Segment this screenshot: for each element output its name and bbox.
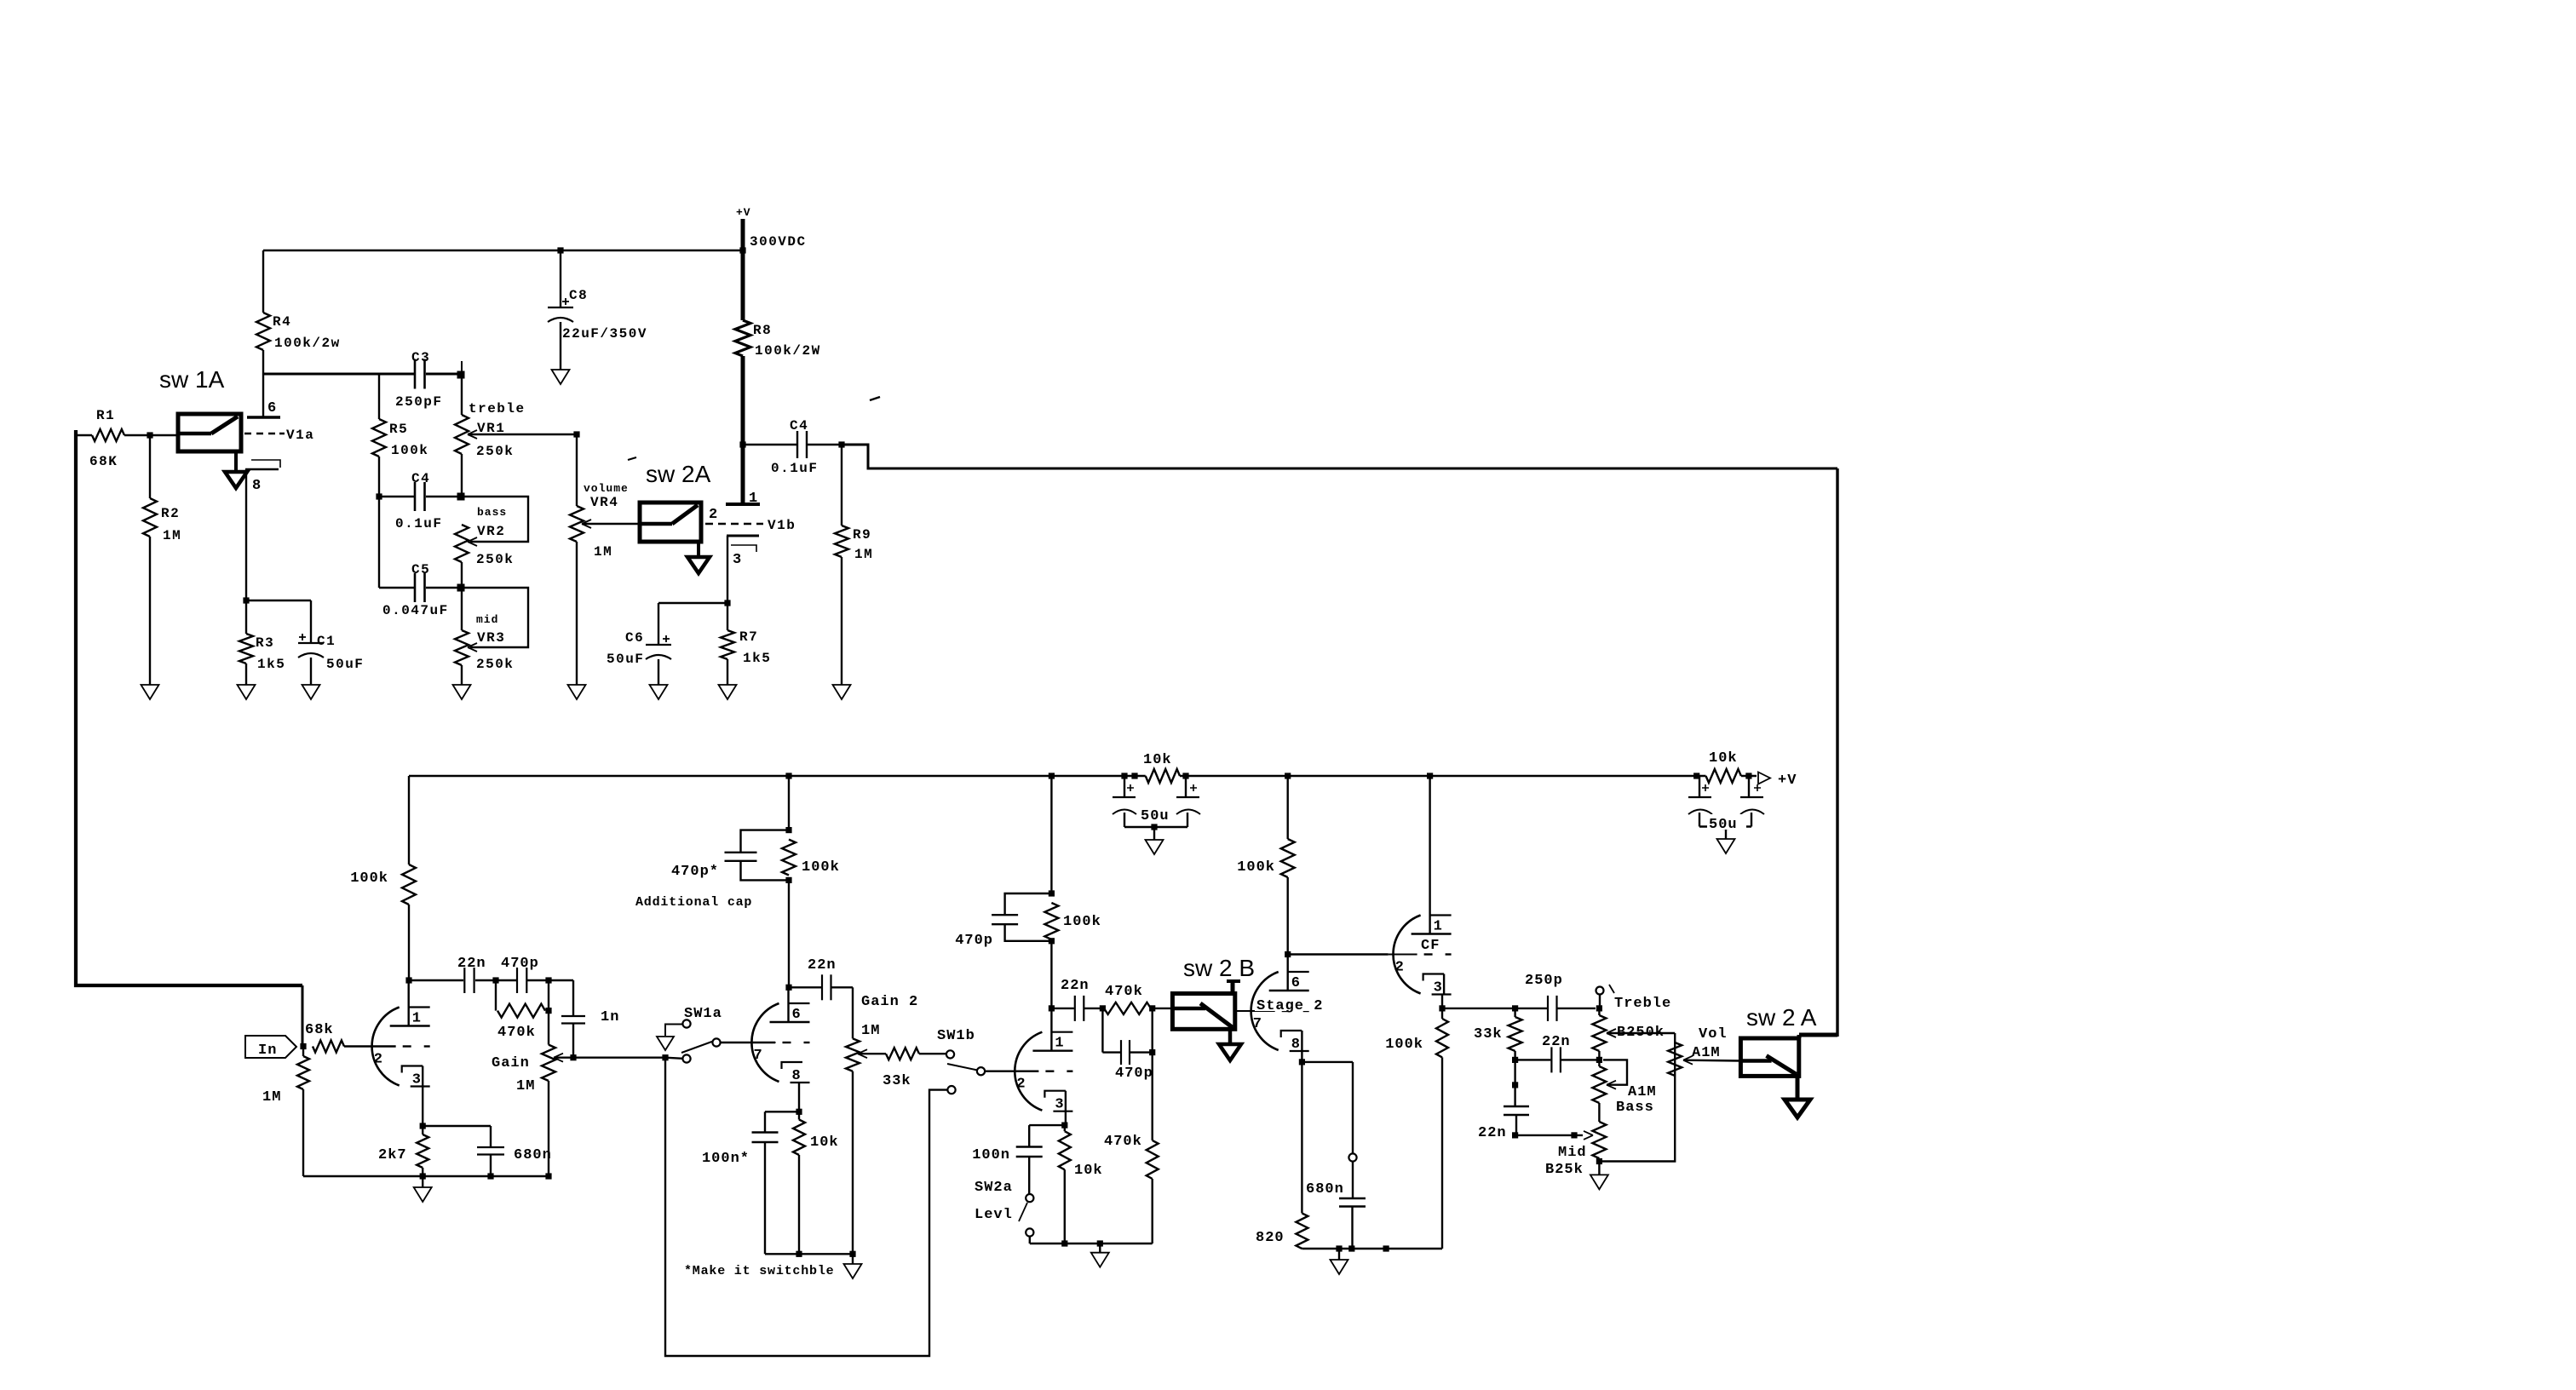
svg-text:R3: R3 [256, 635, 274, 651]
svg-text:3: 3 [1055, 1097, 1063, 1113]
node taps on rail [785, 773, 791, 778]
capacitor 22n stage2 out [789, 986, 821, 988]
wire 470p*/100k branch [788, 776, 790, 830]
svg-text:22n: 22n [808, 957, 837, 974]
wire to CF grid [1288, 953, 1389, 955]
svg-text:470p: 470p [501, 956, 539, 972]
svg-text:7: 7 [1253, 1016, 1262, 1032]
resistor R2 1M [149, 435, 151, 498]
wire V1a cathode lead [245, 469, 247, 600]
wire bass wiper loop [1607, 1081, 1616, 1089]
ground under R2 [141, 685, 159, 699]
tube V1 stage1 [372, 1008, 400, 1086]
svg-text:Levl: Levl [975, 1207, 1013, 1223]
capacitor C1 50uF [310, 600, 312, 643]
resistor R4 100k/2w [262, 250, 264, 313]
svg-text:3: 3 [412, 1072, 421, 1088]
potentiometer VR3 mid 250k [455, 630, 469, 665]
capacitor 470p* additional [741, 830, 790, 853]
wire Gain wiper to SW1a [554, 1056, 665, 1058]
svg-text:volume: volume [584, 482, 629, 495]
wire thick input feed to bottom section [76, 430, 302, 985]
wire B+ bus thick [741, 219, 745, 320]
svg-text:R1: R1 [96, 408, 115, 423]
svg-text:33k: 33k [883, 1073, 911, 1089]
svg-text:sw 2 A: sw 2 A [1746, 1004, 1817, 1031]
tube V1a (partial, plate and cathode) [262, 374, 264, 417]
resistor R9 1M [841, 445, 842, 526]
resistor 10k cathode stage3 [1064, 1125, 1066, 1131]
svg-text:Gain: Gain [492, 1055, 530, 1071]
resistor 100k CF cathode [1436, 1019, 1448, 1057]
wire vol wiper to sw 2 A [1683, 1056, 1693, 1065]
svg-text:C6: C6 [625, 630, 644, 646]
svg-text:treble: treble [469, 401, 526, 416]
svg-text:bass: bass [477, 506, 507, 519]
capacitor 22n stage3 out [1051, 1008, 1073, 1009]
svg-text:R5: R5 [389, 422, 408, 437]
svg-text:1n: 1n [601, 1009, 619, 1025]
capacitor 22n tone top [1515, 1059, 1551, 1060]
svg-text:33k: 33k [1474, 1026, 1503, 1042]
capacitor 470p plate stage3 [1005, 893, 1052, 915]
svg-text:2: 2 [1016, 1077, 1025, 1093]
svg-text:22n: 22n [1542, 1034, 1571, 1050]
svg-text:mid: mid [476, 613, 498, 626]
svg-text:10k: 10k [1143, 752, 1172, 768]
ground under R7 [719, 685, 737, 699]
svg-text:22n: 22n [457, 956, 486, 972]
wire 50u pair common [1124, 826, 1187, 828]
svg-text:R2: R2 [161, 506, 180, 521]
resistor 1M input [302, 1047, 304, 1057]
resistor R5 100k [378, 374, 380, 419]
svg-text:C8: C8 [569, 288, 588, 303]
tube V5 CF [1393, 916, 1420, 994]
svg-text:1k5: 1k5 [257, 657, 285, 672]
wire cathode stage2 [798, 1083, 800, 1111]
svg-text:R4: R4 [273, 314, 291, 330]
svg-text:470k: 470k [1105, 984, 1143, 1000]
svg-text:Bass: Bass [1616, 1100, 1654, 1116]
svg-text:+V: +V [736, 206, 751, 219]
svg-text:C4: C4 [411, 471, 430, 486]
ground under C6 [650, 685, 668, 699]
svg-text:1: 1 [1055, 1036, 1063, 1052]
svg-text:C4: C4 [790, 418, 808, 434]
svg-text:2: 2 [1395, 960, 1404, 976]
resistor 68k grid stopper [300, 1043, 306, 1049]
svg-text:100n: 100n [972, 1147, 1010, 1163]
svg-text:8: 8 [252, 478, 261, 494]
capacitor 100n* cathode [752, 1131, 779, 1133]
power arrow +V [1758, 773, 1770, 784]
svg-text:10k: 10k [810, 1134, 839, 1151]
svg-text:1M: 1M [262, 1089, 281, 1106]
svg-text:Stage 2: Stage 2 [1256, 998, 1323, 1014]
svg-text:Vol: Vol [1699, 1026, 1728, 1042]
svg-text:C5: C5 [411, 562, 430, 577]
svg-text:680n: 680n [1306, 1181, 1344, 1198]
wire plate node stage3 [1050, 941, 1052, 1051]
svg-text:1M: 1M [163, 528, 181, 543]
svg-text:+V: +V [1778, 773, 1797, 789]
ground under sw 2 A [1796, 1076, 1800, 1100]
svg-text:SW1b: SW1b [937, 1028, 975, 1044]
wire to sw 2 B [1153, 1008, 1173, 1009]
svg-text:A1M: A1M [1692, 1045, 1721, 1061]
svg-text:6: 6 [1291, 975, 1300, 991]
svg-text:470p: 470p [955, 933, 993, 949]
svg-text:470k: 470k [1104, 1134, 1142, 1150]
wire treble wiper to Vol [1607, 1029, 1616, 1037]
potentiometer VR4 volume 1M [576, 434, 578, 506]
resistor 10k cathode stage2 [798, 1111, 800, 1119]
svg-text:VR3: VR3 [477, 630, 505, 646]
svg-text:sw 1A: sw 1A [159, 366, 225, 393]
wire cathode stage3 [1065, 1091, 1067, 1125]
svg-text:50u: 50u [1141, 808, 1170, 824]
svg-text:470k: 470k [497, 1025, 536, 1041]
svg-text:1k5: 1k5 [743, 651, 771, 666]
svg-text:1M: 1M [861, 1023, 880, 1039]
ground 820/680n [1338, 1249, 1340, 1260]
wire SW1a to V2 grid [721, 1042, 776, 1043]
capacitor 50u left B [1185, 776, 1187, 797]
resistor 10k supply right [1706, 769, 1741, 783]
capacitor 50u right B [1748, 776, 1750, 797]
potentiometer VR1 treble 250k [461, 375, 463, 415]
node junction C8 tap [557, 247, 563, 253]
potentiometer VR2 bass 250k [455, 525, 469, 562]
ground under 50u right [1717, 839, 1735, 853]
svg-text:50uF: 50uF [326, 657, 364, 672]
svg-text:1M: 1M [854, 547, 873, 562]
svg-text:*Make it switchble: *Make it switchble [684, 1264, 834, 1278]
svg-text:Additional cap: Additional cap [635, 895, 752, 910]
capacitor 1n [549, 979, 573, 981]
wire stage2tube cathode [1301, 1031, 1302, 1062]
svg-text:A1M: A1M [1628, 1084, 1657, 1100]
svg-text:68K: 68K [89, 454, 118, 469]
resistor 820 [1301, 1062, 1302, 1214]
svg-text:1: 1 [749, 491, 757, 507]
resistor R8 100k/2W [735, 320, 750, 356]
ground under R9 [833, 685, 851, 699]
wire plate lead stage1 [408, 980, 410, 1026]
resistor 100k plate stage1 [408, 776, 410, 864]
svg-text:0.047uF: 0.047uF [382, 603, 449, 618]
ground tone stack [1598, 1162, 1600, 1175]
tube V4 Stage 2 [1251, 972, 1279, 1050]
resistor 100k plate [1286, 776, 1288, 839]
ground under C1 [302, 685, 320, 699]
svg-text:1M: 1M [594, 544, 612, 560]
resistor 100k plate stage2 [782, 840, 796, 876]
resistor 10k supply left [1146, 769, 1180, 783]
resistor 470k series [1104, 1002, 1151, 1014]
capacitor C4 0.1uF [379, 496, 414, 498]
svg-text:6: 6 [267, 400, 276, 416]
svg-text:SW1a: SW1a [684, 1006, 722, 1022]
wire cathode rail stage2 [765, 1253, 853, 1255]
capacitor C6 50uF [658, 603, 659, 645]
svg-text:250k: 250k [476, 552, 514, 567]
svg-text:7: 7 [754, 1048, 762, 1064]
wire mid wiper [1512, 1132, 1518, 1138]
resistor R1 68K [76, 434, 92, 436]
svg-text:300VDC: 300VDC [750, 234, 807, 250]
svg-text:100k/2W: 100k/2W [755, 343, 821, 359]
potentiometer Treble B250k [1599, 995, 1601, 1008]
wire VR4 wiper to sw 2A [582, 523, 640, 525]
svg-text:sw 2 B: sw 2 B [1183, 955, 1255, 981]
svg-text:100n*: 100n* [702, 1151, 750, 1167]
ground under sw 1A [234, 451, 238, 472]
svg-text:10k: 10k [1709, 750, 1738, 767]
ground under 50u left [1146, 840, 1164, 854]
svg-text:68k: 68k [305, 1022, 334, 1038]
stray scan mark 1 [870, 397, 880, 400]
svg-text:R9: R9 [853, 527, 871, 543]
svg-text:3: 3 [1434, 980, 1442, 997]
wire top rail to B+ [263, 250, 743, 251]
wire mid wiper loop [462, 588, 528, 647]
capacitor 50u right A [1699, 776, 1700, 797]
wire CF plate lead [1429, 776, 1430, 934]
svg-text:sw 2A: sw 2A [646, 461, 711, 487]
wire plate lead stage2tube [1286, 955, 1288, 991]
ground under VR4 [568, 685, 586, 699]
resistor R7 1k5 [727, 603, 728, 630]
svg-text:820: 820 [1256, 1230, 1285, 1246]
potentiometer Bass A1M [1592, 1066, 1606, 1103]
potentiometer Gain2 1M [852, 987, 854, 1038]
svg-text:10k: 10k [1074, 1163, 1103, 1179]
wire right bus down to sw 2 A [1836, 468, 1838, 1037]
capacitor 470p bright [496, 979, 516, 981]
ground stage1 [422, 1176, 423, 1187]
potentiometer Gain 1M [548, 1011, 549, 1045]
svg-text:100k: 100k [350, 870, 388, 887]
capacitor C5 0.047uF [379, 587, 414, 589]
svg-text:Treble: Treble [1614, 996, 1671, 1012]
ground stage3 cathode [1099, 1244, 1101, 1253]
resistor 2k7 [422, 1126, 423, 1134]
wire thick bus corner into sw 2 A [1799, 1033, 1837, 1037]
svg-text:2: 2 [709, 507, 717, 523]
stray scan mark 2 [628, 457, 636, 460]
potentiometer Vol A1M [1668, 1042, 1682, 1076]
capacitor C8 22uF/350V [560, 250, 561, 307]
wire ground rail stage1 [303, 1175, 549, 1177]
svg-text:1: 1 [1434, 919, 1442, 935]
capacitor 22n tone bottom [1514, 1060, 1515, 1085]
svg-text:VR4: VR4 [590, 495, 618, 510]
resistor 470k mix [495, 980, 497, 1011]
capacitor 680n stage2tube [1348, 1153, 1356, 1161]
ground under VR3 [453, 685, 471, 699]
wire 50u right common [1699, 825, 1751, 827]
node C3/VR1 junction [457, 371, 465, 379]
wire tone stack right rail [1599, 1033, 1675, 1162]
svg-text:250pF: 250pF [395, 394, 443, 410]
svg-text:100k: 100k [391, 443, 428, 458]
capacitor 22n stage1 out [409, 979, 463, 981]
tube V1b (partial) [726, 503, 760, 506]
capacitor 250p [1442, 1008, 1547, 1009]
svg-text:0.1uF: 0.1uF [395, 516, 443, 531]
resistor 33k series [858, 1053, 886, 1054]
svg-text:In: In [258, 1042, 277, 1059]
svg-text:SW2a: SW2a [975, 1180, 1013, 1196]
svg-text:22n: 22n [1061, 978, 1090, 994]
svg-text:250k: 250k [476, 444, 514, 459]
wire CF cathode [1443, 974, 1445, 996]
tube V3 stage3 [1015, 1032, 1042, 1111]
svg-text:R7: R7 [739, 629, 758, 645]
wire cathode stage1 [422, 1066, 423, 1127]
capacitor C4 0.1uF coupling out [743, 444, 796, 445]
svg-text:0.1uF: 0.1uF [771, 461, 819, 476]
capacitor 470p parallel [1101, 1008, 1103, 1053]
svg-text:8: 8 [792, 1068, 801, 1084]
svg-text:50u: 50u [1709, 817, 1738, 833]
svg-text:Gain 2: Gain 2 [861, 994, 918, 1010]
ground under sw 2 B [1228, 1029, 1233, 1044]
wire cathode rail [1302, 1248, 1442, 1249]
wire V1b cathode lead [727, 536, 728, 603]
svg-text:680n: 680n [514, 1147, 552, 1163]
svg-text:VR2: VR2 [477, 524, 505, 539]
wire SW1a bottom return [665, 1058, 947, 1356]
capacitor 100n [1016, 1146, 1043, 1147]
svg-text:22uF/350V: 22uF/350V [562, 326, 647, 342]
svg-text:V1b: V1b [768, 518, 796, 533]
capacitor C3 250pF [414, 359, 417, 389]
svg-text:6: 6 [792, 1007, 801, 1023]
svg-text:100k: 100k [1385, 1037, 1423, 1053]
wire plate rail V1a [263, 373, 414, 376]
wire cathode rail stage3 [1030, 1243, 1153, 1244]
svg-text:250k: 250k [476, 657, 514, 672]
potentiometer Mid B25k [1592, 1122, 1606, 1158]
wire top output run to right bus [842, 445, 1837, 468]
wire B+ rail bottom section [409, 775, 1146, 777]
svg-text:22n: 22n [1478, 1125, 1507, 1141]
svg-text:250p: 250p [1525, 973, 1563, 989]
svg-text:CF: CF [1421, 938, 1440, 954]
svg-text:470p: 470p [1115, 1065, 1153, 1082]
svg-text:100k/2w: 100k/2w [274, 336, 341, 351]
ground stage2 cathode [852, 1254, 854, 1264]
svg-text:8: 8 [1291, 1037, 1300, 1053]
svg-text:C1: C1 [317, 634, 336, 649]
svg-text:V1a: V1a [286, 428, 314, 443]
svg-text:100k: 100k [1063, 914, 1101, 930]
ground under C8 [552, 370, 570, 384]
resistor 100k plate stage3 [1050, 776, 1052, 893]
svg-text:100k: 100k [802, 859, 840, 876]
wire plate node stage2 [788, 880, 790, 987]
wire SW1b to V3 grid [985, 1070, 1038, 1071]
svg-text:1M: 1M [516, 1078, 535, 1094]
resistor 470k grid leak [1151, 1008, 1153, 1140]
svg-text:1: 1 [412, 1011, 421, 1027]
svg-text:470p*: 470p* [671, 864, 719, 880]
svg-text:2k7: 2k7 [378, 1147, 407, 1163]
resistor 33k tone [1514, 1008, 1515, 1017]
svg-text:Mid: Mid [1558, 1145, 1587, 1161]
svg-text:C3: C3 [411, 350, 430, 365]
wire VR1 wiper to volume [468, 434, 577, 435]
svg-text:50uF: 50uF [607, 652, 644, 667]
tube V2 Gain2 [751, 1003, 779, 1082]
svg-text:B25k: B25k [1545, 1162, 1584, 1178]
resistor R3 1k5 [245, 600, 247, 634]
wire bass wiper loop [462, 497, 528, 542]
svg-text:3: 3 [733, 552, 741, 568]
ground under R3 [238, 685, 256, 699]
svg-text:2: 2 [374, 1052, 382, 1068]
svg-text:100k: 100k [1237, 859, 1275, 876]
capacitor 50u left A [1124, 776, 1125, 797]
svg-text:R8: R8 [753, 323, 772, 338]
capacitor 680n stage1 [477, 1146, 504, 1148]
ground under sw 2A [697, 542, 700, 557]
node cathode R3/C1 [243, 597, 249, 603]
input tag In [245, 1036, 296, 1058]
